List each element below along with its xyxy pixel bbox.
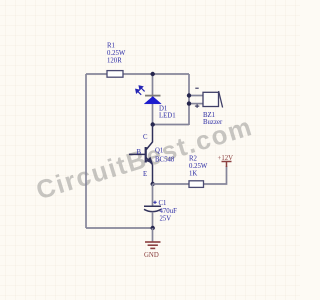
resistor R1 [107,71,123,78]
LED D1 emission arrows [136,86,145,95]
resistor R2 [189,181,204,188]
svg-text:+12V: +12V [218,155,234,162]
svg-text:BZ1: BZ1 [203,112,215,119]
power +12V symbol [222,162,232,168]
svg-text:E: E [143,171,147,178]
node: R1/LED junction [151,72,155,76]
LED D1 triangle [144,97,161,104]
transistor Q1 base bar [145,147,147,163]
wire: capacitor to bottom node [152,212,154,228]
wire: LED branch vertical [152,74,154,125]
svg-text:R1: R1 [107,42,115,49]
wire: top rail from R1 left corner to right corner [86,73,189,75]
svg-text:120R: 120R [107,58,122,65]
svg-text:Buzzer: Buzzer [203,119,223,126]
svg-text:B: B [137,149,142,156]
svg-text:GND: GND [144,252,159,259]
capacitor C1 top plate [144,205,161,207]
svg-text:25V: 25V [160,216,172,223]
wire: left vertical rail [85,74,87,228]
svg-text:D1: D1 [159,105,167,112]
svg-text:1K: 1K [189,171,197,178]
label buzzer minus pin [195,87,198,89]
wire: bottom horizontal to capacitor node [86,227,153,229]
wire: emitter node down to capacitor [152,184,154,206]
svg-text:BC548: BC548 [155,156,175,163]
capacitor C1 plus mark [153,201,156,204]
wire: mid horizontal from LED node to right rail [153,124,190,126]
buzzer BZ1 body [203,92,219,106]
svg-text:Q1: Q1 [155,147,163,154]
node: buzzer minus junction [187,93,191,97]
transistor Q1 collector lead [146,125,152,150]
transistor Q1 emitter lead with arrow [146,158,153,185]
wire: bottom node to ground [152,228,154,242]
capacitor C1 curved bottom plate [144,209,161,211]
wire: buzzer minus stub [189,95,203,97]
svg-text:R2: R2 [189,155,198,162]
LED D1 cathode bar [145,95,161,97]
buzzer BZ1 piezo diagonal [219,91,223,108]
label buzzer plus pin [195,104,199,108]
svg-text:0.25W: 0.25W [107,50,126,57]
wire: buzzer plus stub [189,103,203,105]
svg-text:470uF: 470uF [160,208,178,215]
transistor Q1 base lead [129,153,146,155]
node: buzzer plus junction [187,101,191,105]
node: capacitor bottom / left rail junction [151,226,155,230]
svg-text:C1: C1 [159,200,167,207]
watermark CircuitBest.com [33,112,257,205]
svg-text:C: C [143,134,148,141]
svg-text:0.25W: 0.25W [189,163,208,170]
node: emitter / R2 / C1 junction [151,182,155,186]
wire: emitter node to R2 to +12V riser [153,166,227,184]
node: LED cathode / collector junction [151,122,155,126]
svg-text:LED1: LED1 [159,112,176,119]
ground symbol [145,242,161,248]
wire: right vertical rail (buzzer branch) [188,74,190,125]
